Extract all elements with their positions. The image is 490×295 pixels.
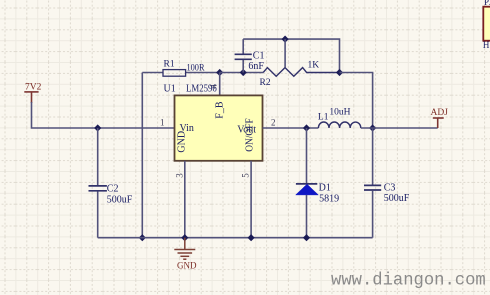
wire: R1 left drop to ground rail bbox=[141, 73, 143, 238]
svg-text:GND: GND bbox=[177, 131, 188, 153]
junction: R1 drop at ground rail bbox=[139, 234, 146, 241]
capacitor C1 bbox=[235, 39, 252, 72]
svg-text:P2: P2 bbox=[484, 0, 490, 7]
junction: pin 4 node bbox=[216, 69, 223, 76]
inductor L1 bbox=[318, 122, 360, 128]
svg-text:F_B: F_B bbox=[215, 101, 226, 119]
svg-text:ADJ: ADJ bbox=[431, 108, 449, 118]
junction: pin 5 at ground rail bbox=[248, 234, 255, 241]
svg-text:1: 1 bbox=[160, 118, 165, 128]
svg-text:1K: 1K bbox=[308, 61, 320, 71]
svg-text:www.diangon.com: www.diangon.com bbox=[331, 272, 486, 291]
svg-text:3: 3 bbox=[174, 173, 184, 178]
wire: L1 out to ADJ port bbox=[361, 127, 438, 129]
junction: D1 bottom at ground rail bbox=[303, 234, 310, 241]
svg-text:6nF: 6nF bbox=[248, 61, 264, 72]
wire: ground rail bbox=[98, 237, 373, 239]
junction: pin 3 at ground rail bbox=[181, 234, 188, 241]
wire: pin 4 stub bbox=[219, 73, 221, 96]
svg-text:R2: R2 bbox=[260, 78, 271, 88]
connector P? (partial, top right) bbox=[483, 0, 490, 50]
svg-text:500uF: 500uF bbox=[384, 193, 410, 204]
svg-text:LM2596: LM2596 bbox=[186, 84, 217, 95]
resistor R1 bbox=[142, 70, 219, 77]
ground symbol bbox=[174, 238, 195, 260]
wire: 7V2 to pin 1 input rail bbox=[32, 102, 175, 128]
svg-text:7V2: 7V2 bbox=[25, 83, 42, 93]
svg-text:L1: L1 bbox=[318, 113, 329, 123]
svg-text:D1: D1 bbox=[319, 183, 331, 194]
svg-text:H: H bbox=[483, 40, 490, 50]
junction: C2 top node bbox=[94, 124, 101, 131]
svg-text:C1: C1 bbox=[253, 51, 265, 62]
svg-text:C2: C2 bbox=[107, 184, 119, 195]
svg-text:ON/OFF: ON/OFF bbox=[245, 118, 256, 152]
wire: pin 2 to L1 bbox=[263, 127, 319, 129]
svg-text:5819: 5819 bbox=[319, 194, 339, 205]
junction: R2 wiper node bbox=[282, 36, 289, 43]
svg-text:C3: C3 bbox=[384, 182, 396, 193]
svg-text:100R: 100R bbox=[187, 64, 206, 74]
junction: R2 right node bbox=[336, 69, 343, 76]
svg-text:500uF: 500uF bbox=[107, 195, 133, 206]
junction: output node bbox=[369, 124, 376, 131]
wire: pin 5 to ground rail bbox=[250, 161, 252, 238]
svg-text:5: 5 bbox=[241, 173, 251, 178]
svg-text:10uH: 10uH bbox=[329, 108, 350, 118]
junction: C1 bottom node bbox=[240, 69, 247, 76]
power port ADJ bbox=[433, 118, 444, 128]
regulator U1 LM2596 body bbox=[175, 95, 263, 160]
power port 7V2 bbox=[24, 92, 38, 103]
potentiometer R2 bbox=[263, 39, 339, 76]
wire: top link C1 to R2 right bbox=[243, 39, 339, 72]
capacitor C2 bbox=[89, 128, 107, 238]
svg-text:GND: GND bbox=[177, 260, 197, 270]
wire: pin 3 to ground rail bbox=[184, 161, 186, 238]
junction: switch node D1 top bbox=[303, 124, 310, 131]
wire: feedback link to output node bbox=[340, 73, 373, 129]
capacitor C3 bbox=[364, 128, 381, 238]
svg-text:U1: U1 bbox=[164, 84, 176, 95]
diode D1 bbox=[296, 128, 319, 238]
svg-text:R1: R1 bbox=[164, 60, 175, 70]
wire: F_B line R1 to R2 bbox=[220, 72, 264, 74]
svg-text:2: 2 bbox=[271, 118, 276, 128]
